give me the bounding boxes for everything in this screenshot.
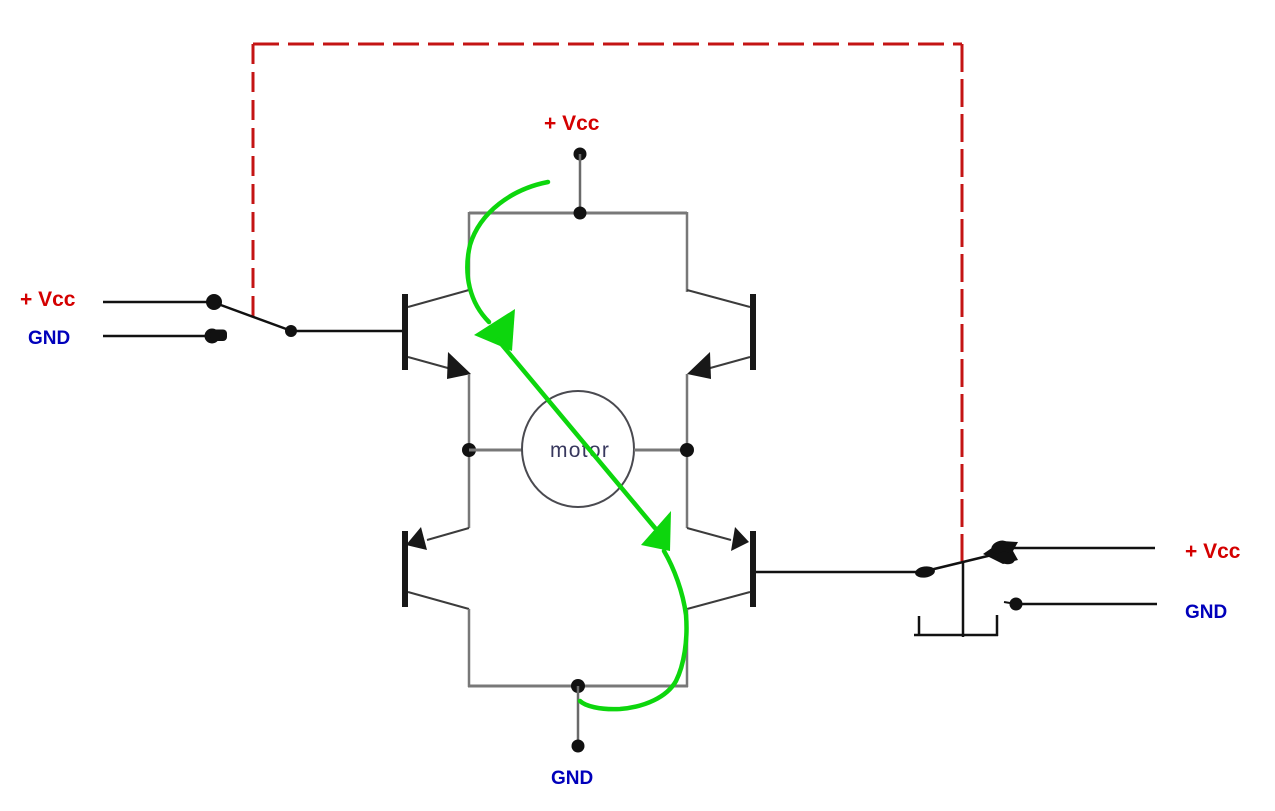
switch S1 GND contact blob [205,329,220,344]
wire Q4 base to switch S2 [756,571,918,574]
wire right Vcc feed [1012,547,1155,550]
switch S2 lever [930,553,1000,570]
wire right rail lower [686,609,689,687]
wire left GND feed [103,335,205,338]
wire top rail [469,212,687,215]
motor M1 [522,391,634,507]
green current flow arrowhead 2 [641,511,671,551]
wire top pin to rail [579,154,582,213]
wire switch S1 to Q1 base [291,330,402,333]
transistor Q4 (bottom-right PNP) [687,527,756,609]
wire motor left lead [469,449,523,452]
red dashed gang-link right vertical [961,44,964,561]
switch S1 lever [218,304,289,330]
wire left mid rail [468,374,471,528]
green current flow arrowhead 1 [474,309,515,351]
transistor Q2 (top-right NPN) [687,290,756,379]
switch S2 GND contact tick [1004,602,1010,603]
green current flow diagonal through motor [498,340,655,528]
S2 bracket bottom [914,634,998,637]
svg-text:+ Vcc: + Vcc [544,112,600,135]
junction dot top rail [574,207,587,220]
red dashed gang-link left vertical [252,44,255,316]
top supply pin dot [574,148,587,161]
wire bottom pin [577,686,580,746]
switch S2 pole blob [914,565,935,579]
wire bottom rail [468,685,688,688]
wire motor right lead [634,449,687,452]
svg-text:GND: GND [551,768,593,789]
transistor Q3 (bottom-left PNP) [402,527,469,609]
junction dot right motor node [680,443,694,457]
bottom pin dot [572,740,585,753]
wire left Vcc feed [103,301,208,304]
svg-text:motor: motor [550,439,610,462]
S2 bracket right tick [996,615,999,636]
wire left rail lower [468,609,471,687]
wire left rail upper [468,212,471,291]
transistor Q1 (top-left NPN) [402,290,471,379]
junction dot bottom rail [571,679,585,693]
svg-text:GND: GND [28,328,70,349]
svg-text:+ Vcc: + Vcc [1185,540,1241,563]
switch S2 GND contact dot [1010,598,1023,611]
wire S2 pivot vertical [962,561,965,637]
switch S1 Vcc contact dot [206,294,222,310]
wire right GND feed [1021,603,1157,606]
svg-text:+ Vcc: + Vcc [20,288,76,311]
wire right rail upper [686,212,689,292]
junction dot left motor node [462,443,476,457]
green current flow lower hook [580,551,687,709]
green current flow path upper sweep [467,182,548,322]
wire right mid rail [686,374,689,528]
S2 bracket left tick [918,616,921,636]
svg-text:GND: GND [1185,602,1227,623]
switch S1 pole dot [285,325,297,337]
red dashed gang-link top horizontal [253,43,962,46]
switch S2 Vcc contact blob [983,541,1018,564]
